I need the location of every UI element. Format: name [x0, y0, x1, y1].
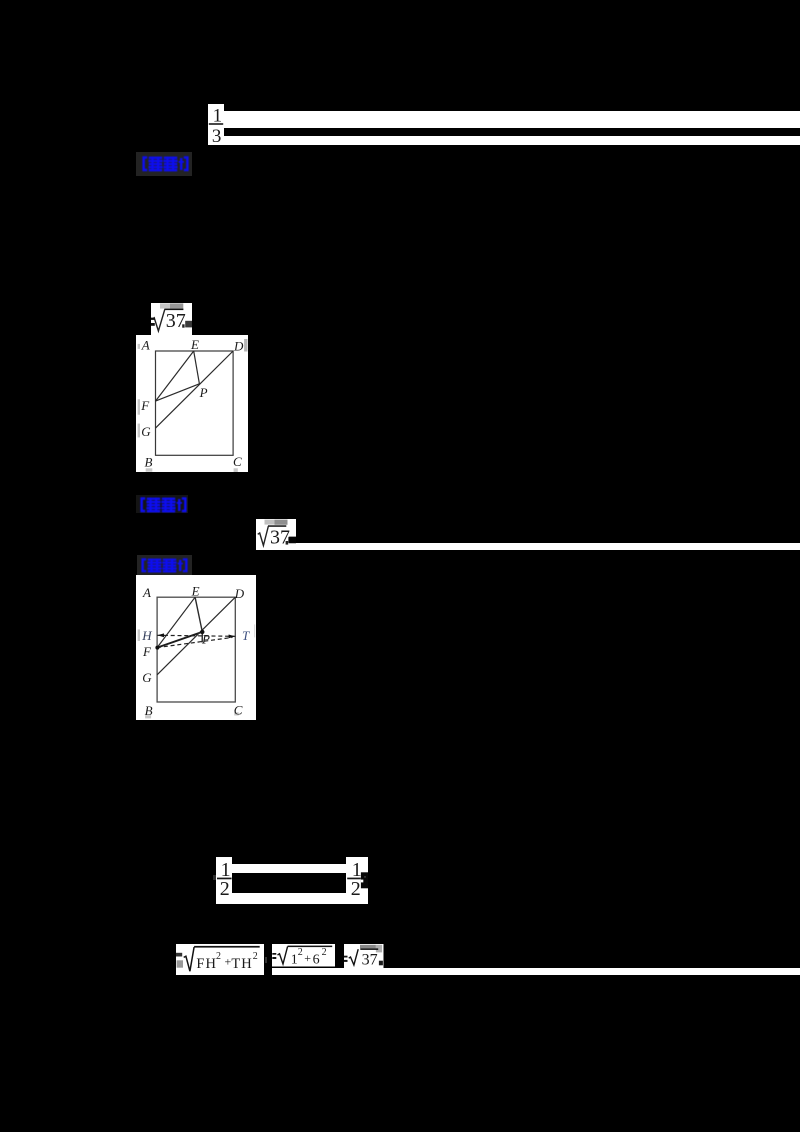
- dark remnant left of 1/2: [213, 875, 216, 880]
- equation image: fraction 1/3: [208, 104, 224, 145]
- svg-text:2: 2: [220, 877, 230, 899]
- equation image: fraction 1/2 (left): [216, 857, 232, 904]
- svg-text:E: E: [190, 337, 199, 352]
- svg-text:37: 37: [270, 526, 290, 548]
- dot at P: [200, 630, 204, 634]
- svg-text:1: 1: [290, 953, 297, 967]
- svg-text:D: D: [234, 586, 245, 601]
- line F-P (thick): [157, 632, 202, 648]
- svg-text:T: T: [242, 628, 250, 643]
- dark = remnant right of box: [265, 957, 267, 963]
- svg-text:1: 1: [213, 105, 223, 126]
- svg-text:2: 2: [216, 951, 221, 962]
- blue section header 3 background: [137, 555, 192, 575]
- svg-text:37: 37: [166, 310, 186, 332]
- svg-text:G: G: [141, 424, 151, 439]
- svg-text:B: B: [144, 455, 152, 470]
- line E-P: [193, 351, 199, 384]
- equation image: sqrt(37) #2: [256, 519, 297, 551]
- svg-text:A: A: [140, 337, 149, 352]
- svg-text:C: C: [234, 702, 243, 717]
- figure 2: rectangle ABCD with E,F,G,H,T,P and dashed lines: [136, 575, 256, 720]
- svg-text:G: G: [142, 670, 152, 685]
- equation image: =sqrt(37),: [344, 944, 384, 968]
- gray edge slivers: [137, 629, 139, 641]
- line G-D: [155, 351, 233, 428]
- svg-text:F: F: [142, 644, 152, 659]
- white equation strip between fractions (top): [232, 864, 347, 873]
- svg-text:3: 3: [212, 126, 222, 145]
- svg-text:H: H: [141, 628, 152, 643]
- blue section header 2 text: [140, 497, 188, 513]
- svg-text:FH: FH: [197, 955, 218, 971]
- equation image: fraction 1/2 (right) with black glyph: [346, 857, 368, 904]
- line F-P: [155, 384, 199, 401]
- dashed line F-T: [157, 637, 232, 647]
- svg-text:P: P: [198, 385, 207, 400]
- blue section header 1 text: [142, 156, 190, 172]
- blue section header 2 background: [136, 495, 188, 513]
- labels: [140, 337, 244, 470]
- rectangle ABCD: [157, 597, 235, 702]
- dot at F: [155, 646, 159, 650]
- line F-E: [155, 351, 193, 401]
- arrowhead at T: [228, 634, 235, 638]
- svg-text:B: B: [144, 703, 152, 718]
- arrowhead at H: [157, 633, 164, 637]
- svg-text:C: C: [233, 454, 242, 469]
- white equation strip right of sqrt37 #2 (to page edge): [296, 543, 800, 551]
- white equation strip 2 right of 1/3: [224, 136, 800, 145]
- svg-text:+: +: [304, 951, 311, 965]
- svg-text:2: 2: [297, 947, 302, 958]
- equation image: =sqrt(1^2+6^2): [272, 944, 336, 967]
- blue section header 1 background: [136, 152, 192, 176]
- blue section header 3 text: [141, 558, 189, 573]
- line G-D: [157, 597, 235, 675]
- gray edge slivers: [137, 344, 139, 349]
- white equation strip right of 1/3 (clipped at page edge): [224, 111, 800, 128]
- svg-text:A: A: [142, 585, 151, 600]
- svg-text:D: D: [233, 338, 244, 353]
- svg-text:6: 6: [312, 953, 319, 967]
- svg-text:E: E: [190, 584, 199, 599]
- equation image: =sqrt(FH^2+TH^2): [176, 944, 264, 976]
- svg-text:TH: TH: [232, 955, 253, 971]
- svg-text:2: 2: [253, 951, 258, 962]
- svg-text:37: 37: [362, 951, 378, 968]
- dashed line H-T: [157, 635, 235, 636]
- svg-text:P: P: [201, 631, 210, 646]
- rectangle ABCD: [155, 351, 233, 455]
- figure 1: rectangle ABCD with E,F,G,P: [136, 335, 248, 473]
- white equation strip to page edge (bottom line): [272, 968, 800, 975]
- line E-P with stub below: [195, 597, 202, 642]
- labels: [141, 584, 250, 719]
- white equation strip below fractions: [232, 893, 346, 904]
- svg-text:2: 2: [321, 947, 326, 958]
- equation image: sqrt(37) #1: [151, 303, 192, 335]
- line F-E: [157, 597, 195, 647]
- svg-text:2: 2: [351, 877, 361, 899]
- svg-text:F: F: [140, 398, 150, 413]
